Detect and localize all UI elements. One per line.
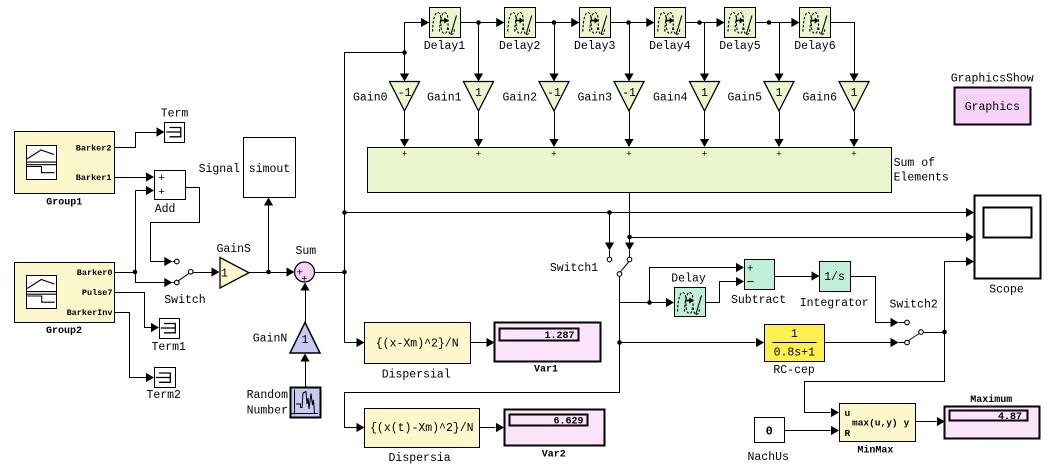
svg-text:Sum of: Sum of <box>894 157 936 170</box>
svg-text:-1: -1 <box>622 87 636 100</box>
svg-text:Delay1: Delay1 <box>424 40 466 53</box>
svg-text:6.629: 6.629 <box>553 417 583 428</box>
svg-text:Group2: Group2 <box>46 326 82 337</box>
svg-text:+: + <box>626 150 631 160</box>
svg-text:BarkerInv: BarkerInv <box>67 308 113 318</box>
svg-text:Barker1: Barker1 <box>76 173 112 183</box>
svg-text:Gain6: Gain6 <box>802 92 837 105</box>
svg-text:Sum: Sum <box>295 245 316 258</box>
svg-text:Term: Term <box>161 108 189 121</box>
svg-text:-1: -1 <box>398 87 412 100</box>
svg-text:Signal: Signal <box>199 163 241 176</box>
svg-text:+: + <box>551 150 556 160</box>
svg-text:+: + <box>158 173 165 185</box>
svg-text:0: 0 <box>766 425 773 439</box>
svg-text:-1: -1 <box>547 87 561 100</box>
svg-text:Gain4: Gain4 <box>653 92 688 105</box>
svg-text:Var2: Var2 <box>542 450 566 461</box>
svg-text:+: + <box>851 150 856 160</box>
svg-text:+: + <box>747 264 754 276</box>
svg-text:Gain3: Gain3 <box>577 92 612 105</box>
svg-text:Switch2: Switch2 <box>889 299 937 312</box>
svg-text:Dispersia: Dispersia <box>389 452 451 465</box>
svg-text:Dispersial: Dispersial <box>382 369 451 382</box>
svg-text:1.287: 1.287 <box>544 331 574 342</box>
svg-text:Add: Add <box>155 203 176 216</box>
svg-text:y: y <box>904 417 910 428</box>
svg-text:Graphics: Graphics <box>965 101 1020 114</box>
svg-text:Maximum: Maximum <box>970 394 1012 406</box>
svg-text:Gain1: Gain1 <box>427 92 462 105</box>
svg-text:Term1: Term1 <box>151 341 186 354</box>
svg-text:+: + <box>702 150 707 160</box>
svg-text:Pulse7: Pulse7 <box>82 288 113 298</box>
svg-text:Barker0: Barker0 <box>77 268 113 278</box>
svg-text:Integrator: Integrator <box>800 297 869 310</box>
svg-text:Gain0: Gain0 <box>353 92 388 105</box>
svg-text:NachUs: NachUs <box>747 451 788 464</box>
svg-text:0.8s+1: 0.8s+1 <box>774 346 816 359</box>
svg-text:Delay3: Delay3 <box>574 40 616 53</box>
svg-text:Term2: Term2 <box>146 389 181 402</box>
svg-text:Elements: Elements <box>894 171 949 184</box>
svg-text:simout: simout <box>249 163 290 176</box>
svg-text:1: 1 <box>776 87 783 100</box>
svg-text:Subtract: Subtract <box>731 294 786 307</box>
svg-text:+: + <box>301 275 307 286</box>
svg-text:+: + <box>158 187 165 199</box>
svg-text:1: 1 <box>302 334 309 347</box>
svg-text:GainN: GainN <box>253 333 288 346</box>
svg-text:Random: Random <box>247 389 289 402</box>
svg-text:Delay: Delay <box>671 273 706 286</box>
svg-text:GraphicsShow: GraphicsShow <box>951 73 1034 86</box>
svg-text:1: 1 <box>475 87 482 100</box>
svg-text:Group1: Group1 <box>46 198 82 209</box>
svg-text:Gain5: Gain5 <box>727 92 762 105</box>
svg-text:Switch: Switch <box>164 294 205 307</box>
svg-text:1: 1 <box>701 87 708 100</box>
svg-text:+: + <box>402 150 407 160</box>
svg-text:MinMax: MinMax <box>857 445 893 457</box>
svg-text:Delay2: Delay2 <box>499 40 541 53</box>
svg-text:1: 1 <box>221 267 228 280</box>
svg-text:RC-cep: RC-cep <box>773 364 815 377</box>
svg-text:+: + <box>776 150 781 160</box>
svg-text:Delay6: Delay6 <box>794 40 836 53</box>
svg-text:Barker2: Barker2 <box>76 143 112 153</box>
svg-text:R: R <box>845 428 851 439</box>
svg-text:+: + <box>476 150 481 160</box>
svg-text:Var1: Var1 <box>534 365 558 376</box>
svg-text:Scope: Scope <box>989 283 1024 296</box>
svg-text:Delay4: Delay4 <box>649 40 691 53</box>
svg-text:Switch1: Switch1 <box>550 262 598 275</box>
svg-text:Gain2: Gain2 <box>502 92 537 105</box>
svg-text:1/s: 1/s <box>824 271 845 284</box>
svg-text:u: u <box>845 408 851 419</box>
svg-text:max(u,y): max(u,y) <box>852 417 898 428</box>
svg-text:1: 1 <box>791 328 798 341</box>
svg-text:{(x-Xm)^2}/N: {(x-Xm)^2}/N <box>376 337 459 350</box>
svg-text:Number: Number <box>247 405 288 418</box>
svg-text:{(x(t)-Xm)^2}/N: {(x(t)-Xm)^2}/N <box>370 422 474 435</box>
svg-text:Delay5: Delay5 <box>719 40 761 53</box>
svg-text:4.87: 4.87 <box>998 412 1022 423</box>
svg-text:1: 1 <box>851 87 858 100</box>
svg-text:GainS: GainS <box>216 243 251 256</box>
